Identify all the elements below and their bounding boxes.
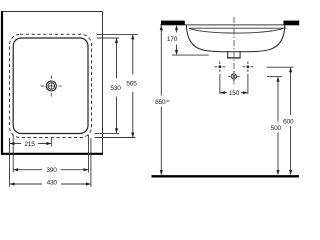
countertop panel right edge (102, 12, 104, 154)
faucet hole left (215, 62, 226, 73)
dim 850 label (153, 97, 169, 105)
countertop panel bottom edge (thick) (1, 153, 103, 155)
dim 215 line with arrows (10, 142, 52, 145)
floor line (thick) (152, 175, 300, 177)
dim 530 line with arrows (115, 38, 118, 133)
dim 430 extension lines (9, 138, 11, 187)
drain crosshair (41, 76, 62, 97)
dim 565 extension lines (97, 33, 138, 35)
svg-text:565: 565 (126, 80, 137, 87)
basin inner rim arc (189, 29, 283, 33)
dim 170 line with arrows (175, 25, 178, 55)
dim 565 line with arrows (131, 34, 134, 137)
svg-text:215: 215 (24, 141, 35, 148)
dim 500 label (269, 123, 284, 131)
svg-text:430: 430 (47, 180, 58, 187)
outlet circle (228, 71, 239, 82)
dim 390 extension lines (12, 135, 14, 173)
svg-text:850: 850 (155, 99, 166, 106)
drain inner circle (48, 83, 55, 90)
countertop panel top edge (2, 11, 103, 13)
center tick (50, 138, 52, 147)
svg-text:500: 500 (271, 125, 282, 132)
dim 600 extension line (267, 66, 294, 68)
dim 850 line with arrows (160, 25, 163, 175)
countertop section bar right (284, 21, 300, 25)
dim 530 extension lines (97, 37, 119, 39)
basin rim underside line (189, 27, 286, 29)
countertop surface line (160, 24, 299, 26)
dim 600 line with arrows (289, 67, 292, 175)
dim 150 line with arrows (220, 91, 248, 94)
dim 600 label (281, 117, 296, 125)
dim 150 brackets (219, 74, 221, 94)
bowl outer profile (186, 25, 285, 52)
dim 500 line with arrows (276, 77, 279, 175)
vertical centerline (233, 17, 235, 85)
faucet hole right (243, 62, 254, 73)
svg-text:600: 600 (283, 118, 294, 125)
drain stub (227, 51, 240, 58)
dim 390 line with arrows (13, 168, 88, 171)
svg-text:170: 170 (167, 36, 178, 43)
dim 170 bottom extension (172, 54, 209, 56)
countertop panel left edge (thick) (1, 11, 3, 155)
svg-text:530: 530 (110, 85, 121, 92)
dim 500 extension line (267, 76, 282, 78)
dim 215 extension tick left (9, 138, 11, 147)
dim 850 leader dash (166, 100, 169, 102)
svg-text:390: 390 (46, 167, 57, 174)
drain outer circle (46, 81, 56, 91)
svg-text:150: 150 (229, 90, 240, 97)
dim 430 line with arrows (10, 182, 91, 185)
basin rim solid rounded rect 390x530 (13, 38, 88, 134)
dashed cutout rounded rect 430x565 (10, 34, 92, 137)
countertop section bar left (161, 21, 185, 25)
